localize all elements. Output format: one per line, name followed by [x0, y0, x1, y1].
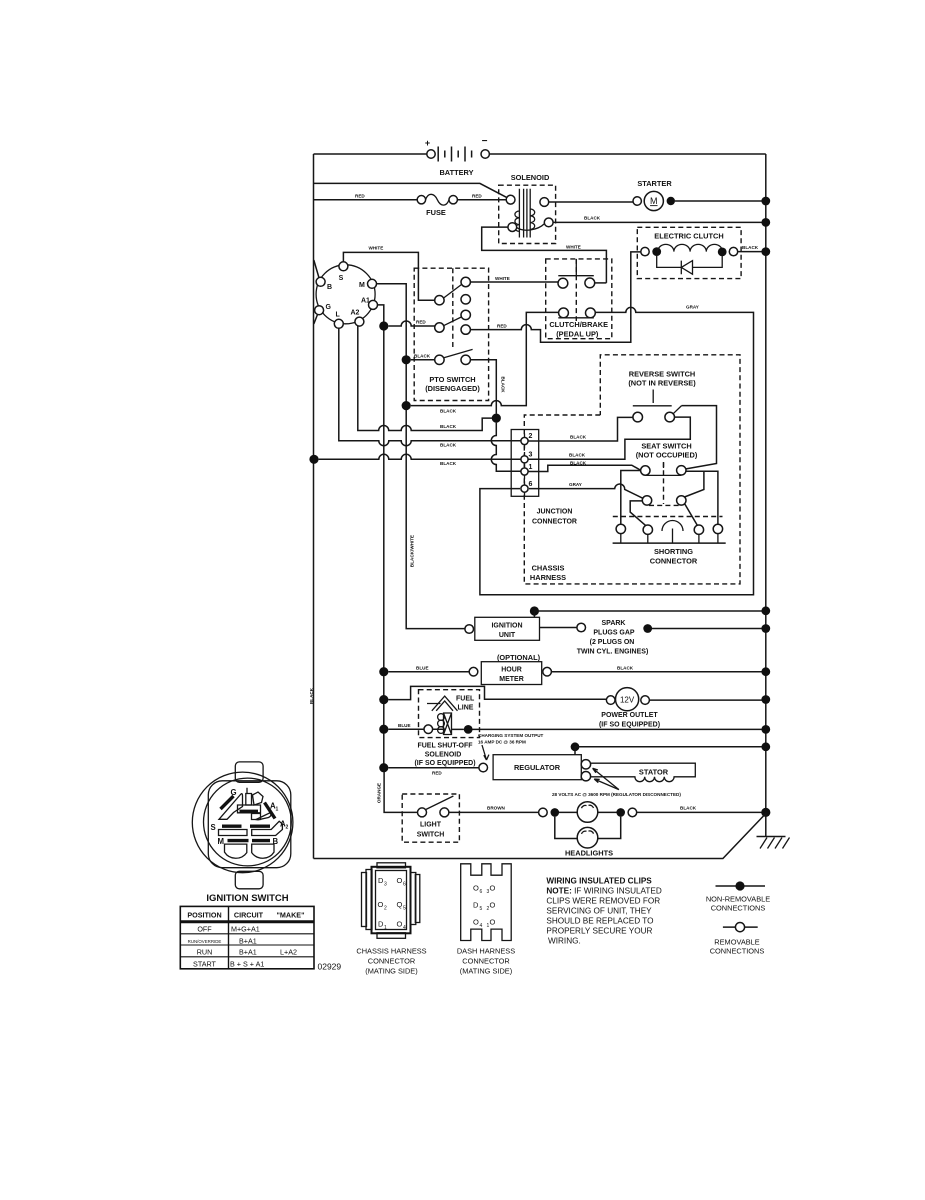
junction regulator charging: [571, 742, 580, 751]
svg-text:WHITE: WHITE: [566, 245, 581, 250]
svg-text:(PEDAL UP): (PEDAL UP): [556, 330, 599, 339]
key slots: [246, 788, 263, 805]
svg-text:(MATING SIDE): (MATING SIDE): [460, 967, 512, 976]
spark plugs gap: [540, 620, 766, 656]
svg-text:CHASSIS: CHASSIS: [532, 564, 565, 573]
svg-text:HARNESS: HARNESS: [530, 573, 566, 582]
svg-text:BLACK: BLACK: [440, 443, 457, 448]
wire left bus vertical (battery+ / B / ground run): [313, 154, 315, 859]
svg-text:3: 3: [529, 452, 533, 459]
12V power outlet: [599, 688, 660, 729]
wire starter to bus: [675, 200, 766, 202]
svg-text:ORANGE: ORANGE: [377, 783, 382, 803]
svg-text:ELECTRIC CLUTCH: ELECTRIC CLUTCH: [654, 232, 723, 241]
wire B to left bus: [314, 260, 319, 278]
svg-text:STATOR: STATOR: [639, 768, 669, 777]
svg-text:28 VOLTS AC @ 3600 RPM (REGULA: 28 VOLTS AC @ 3600 RPM (REGULATOR DISCON…: [552, 792, 681, 797]
wire M to clutch/brake via hop: [411, 312, 559, 405]
svg-text:M: M: [359, 282, 365, 289]
dash harness connector: [457, 864, 515, 976]
svg-text:PROPERLY SECURE YOUR: PROPERLY SECURE YOUR: [546, 927, 652, 936]
pto white pole: [435, 277, 471, 305]
junction connector: [511, 430, 577, 526]
removable connections legend: [710, 923, 765, 956]
svg-text:SOLENOID: SOLENOID: [425, 752, 462, 759]
svg-text:BLACK: BLACK: [570, 461, 587, 466]
fuse: [417, 194, 457, 217]
fuel line box: [419, 690, 480, 738]
light switch: [402, 794, 459, 842]
svg-text:BLACK: BLACK: [414, 353, 431, 358]
svg-text:1: 1: [529, 464, 533, 471]
fuel solenoid terminal: [424, 725, 433, 734]
svg-text:−: −: [482, 136, 488, 147]
svg-text:A1: A1: [361, 298, 370, 305]
svg-text:WHITE: WHITE: [495, 276, 510, 281]
wire RED pto to electric clutch: [470, 252, 640, 342]
terminal A1: [369, 300, 378, 309]
junction A1 12V tee: [379, 695, 388, 704]
junction hour meter bus: [761, 667, 770, 676]
wire A1 to 12V outlet: [388, 686, 606, 699]
wire pin6 GRAY to seat switch: [529, 484, 643, 498]
wire M to pto black: [411, 359, 435, 361]
svg-text:S: S: [339, 275, 344, 282]
wire pin3 to reverse switch BLACK: [528, 417, 690, 459]
wire BLUE A1 to fuel solenoid: [388, 728, 424, 730]
svg-text:12V: 12V: [620, 695, 635, 704]
svg-text:M: M: [650, 196, 658, 206]
wire BROWN light switch to headlights: [449, 811, 539, 813]
terminal M: [368, 279, 377, 288]
ignition switch table: [180, 906, 314, 968]
svg-text:WIRING INSULATED CLIPS: WIRING INSULATED CLIPS: [546, 877, 652, 886]
svg-text:CHARGING SYSTEM OUTPUT: CHARGING SYSTEM OUTPUT: [478, 733, 544, 738]
junction headlight bus: [761, 808, 770, 817]
svg-text:BLACK: BLACK: [617, 665, 634, 670]
svg-text:B + S + A1: B + S + A1: [230, 959, 264, 968]
svg-text:LIGHT: LIGHT: [420, 822, 442, 829]
junction pto-black/A2: [492, 414, 501, 423]
wire RED fuse row: [314, 199, 507, 201]
seat switch: [636, 442, 698, 506]
svg-text:FUEL SHUT-OFF: FUEL SHUT-OFF: [417, 743, 473, 750]
regulator: [479, 755, 591, 781]
svg-text:(NOT OCCUPIED): (NOT OCCUPIED): [636, 451, 698, 460]
wire seat LL elbow to shorting pin B: [630, 501, 646, 526]
svg-text:BATTERY: BATTERY: [439, 168, 473, 177]
junction fuel dot: [464, 725, 473, 734]
svg-text:NOTE: IF WIRING INSULATED: NOTE: IF WIRING INSULATED: [546, 887, 661, 896]
svg-text:1: 1: [384, 925, 387, 931]
svg-text:BLUE: BLUE: [398, 723, 411, 728]
svg-text:DASH HARNESS: DASH HARNESS: [457, 947, 515, 956]
svg-text:START: START: [193, 959, 217, 968]
pto switch box: [414, 268, 488, 400]
svg-text:BLACK: BLACK: [440, 424, 457, 429]
svg-text:B: B: [273, 837, 279, 846]
svg-text:RED: RED: [472, 194, 482, 199]
svg-text:BLACK: BLACK: [680, 806, 697, 811]
svg-text:CHASSIS HARNESS: CHASSIS HARNESS: [356, 947, 426, 956]
wire battery feed to solenoid (diagonal): [314, 183, 507, 197]
svg-text:(OPTIONAL): (OPTIONAL): [497, 653, 541, 662]
solenoid: [499, 173, 556, 244]
svg-text:RED: RED: [432, 771, 442, 776]
wire seat LR to shorting pin C: [685, 504, 698, 526]
junction 12V bus: [761, 695, 770, 704]
svg-text:JUNCTION: JUNCTION: [537, 509, 573, 516]
svg-text:4: 4: [480, 923, 483, 929]
wire RED A1 to PTO: [388, 321, 435, 326]
svg-text:RED: RED: [355, 194, 365, 199]
svg-text:6: 6: [480, 889, 483, 895]
svg-text:O: O: [397, 876, 403, 885]
junction M black tee pto: [402, 355, 411, 364]
svg-text:M: M: [218, 837, 225, 846]
svg-text:CONNECTOR: CONNECTOR: [462, 957, 510, 966]
junction clutch bus: [761, 247, 770, 256]
svg-text:2: 2: [529, 433, 533, 440]
svg-text:RUN: RUN: [197, 948, 213, 957]
junction fuel bus: [761, 725, 770, 734]
svg-text:B+A1: B+A1: [239, 948, 257, 957]
wire S WHITE to PTO common: [343, 252, 434, 300]
svg-text:PTO SWITCH: PTO SWITCH: [429, 375, 475, 384]
svg-text:RED: RED: [416, 320, 426, 325]
wire pin1 to seat switch BLACK: [528, 465, 641, 471]
wire A2 down to black row2: [358, 326, 492, 431]
wire fuel row to bus: [473, 728, 766, 730]
svg-text:G: G: [326, 304, 332, 311]
wire clutch/brake upper right to solenoid white: [595, 282, 607, 284]
clutch/brake switch box: [546, 259, 612, 339]
svg-text:2: 2: [286, 825, 289, 831]
svg-text:REGULATOR: REGULATOR: [514, 763, 561, 772]
svg-text:NON-REMOVABLE: NON-REMOVABLE: [706, 895, 770, 904]
junction A1 hour meter: [379, 667, 388, 676]
svg-text:RUN/OVERRIDE: RUN/OVERRIDE: [188, 939, 222, 944]
svg-text:RED: RED: [497, 323, 507, 328]
svg-text:BLACK: BLACK: [440, 408, 457, 413]
terminal S: [339, 262, 348, 271]
svg-text:PLUGS GAP: PLUGS GAP: [593, 630, 635, 637]
junction A1 fuel tee: [379, 725, 388, 734]
svg-text:O: O: [490, 918, 496, 927]
svg-text:"MAKE": "MAKE": [277, 910, 305, 919]
ignition switch face drawing: [192, 762, 293, 889]
terminal A2: [355, 317, 364, 326]
svg-text:POWER OUTLET: POWER OUTLET: [601, 712, 658, 719]
wire BLACK solenoid to bus: [553, 221, 766, 223]
svg-text:+: +: [425, 138, 430, 148]
svg-text:CONNECTOR: CONNECTOR: [650, 557, 698, 566]
chassis harness dashed outline: [524, 355, 740, 584]
wire battery top left to left bus: [314, 153, 427, 155]
svg-text:IGNITION SWITCH: IGNITION SWITCH: [206, 893, 288, 904]
svg-text:METER: METER: [499, 676, 524, 683]
svg-text:O: O: [490, 884, 496, 893]
svg-text:3: 3: [384, 882, 387, 888]
svg-text:(2 PLUGS ON: (2 PLUGS ON: [590, 639, 635, 646]
svg-text:SHORTING: SHORTING: [654, 547, 693, 556]
svg-text:O: O: [473, 918, 479, 927]
pin 2: [521, 433, 533, 449]
svg-text:(IF SO EQUIPPED): (IF SO EQUIPPED): [599, 722, 660, 729]
right bus vertical: [765, 154, 767, 812]
svg-text:STARTER: STARTER: [637, 179, 672, 188]
wiring insulated clips note: [546, 877, 661, 946]
pto red pole: [435, 310, 471, 334]
svg-text:CONNECTOR: CONNECTOR: [368, 957, 416, 966]
svg-text:B: B: [327, 284, 332, 291]
svg-text:S: S: [211, 823, 216, 832]
svg-text:BLACK: BLACK: [569, 453, 586, 458]
svg-text:POSITION: POSITION: [187, 910, 221, 919]
svg-text:BLUE: BLUE: [416, 665, 429, 670]
wire black row4 bus to junction pin3: [319, 454, 521, 459]
wire L down to black row3: [339, 328, 521, 445]
stator: [590, 763, 695, 782]
svg-text:GRAY: GRAY: [569, 482, 582, 487]
clutch/brake contacts: [558, 259, 595, 318]
svg-text:CIRCUIT: CIRCUIT: [234, 910, 264, 919]
wire WHITE pto to clutch/brake: [470, 281, 558, 283]
wire seat UR to shorting pin D: [686, 471, 718, 524]
junction charging bus: [761, 742, 770, 751]
thick position ticks: [221, 796, 234, 809]
svg-text:LINE: LINE: [458, 705, 474, 712]
svg-text:OFF: OFF: [197, 925, 212, 934]
svg-text:(DISENGAGED): (DISENGAGED): [425, 384, 480, 393]
svg-text:GRAY: GRAY: [686, 305, 699, 310]
junction A1 regulator tee: [379, 763, 388, 772]
svg-text:(IF SO EQUIPPED): (IF SO EQUIPPED): [414, 760, 475, 767]
wire seat LR to pinD net: [685, 471, 704, 497]
svg-text:O: O: [397, 920, 403, 929]
svg-text:BLACK: BLACK: [309, 687, 314, 704]
junction starter bus: [761, 197, 770, 206]
wire BLUE A1 to hour meter: [388, 671, 469, 673]
svg-text:BLACK: BLACK: [501, 377, 506, 394]
terminal G: [315, 306, 324, 315]
terminal B: [316, 277, 325, 286]
electric clutch: [637, 227, 741, 278]
ignition switch (schematic circle): [316, 265, 375, 324]
svg-text:G: G: [231, 788, 237, 797]
starter M: [633, 179, 675, 211]
wire M down (black/white vertical): [377, 284, 465, 629]
wire G to left bus: [314, 315, 318, 325]
svg-text:M+G+A1: M+G+A1: [231, 925, 260, 934]
svg-text:CONNECTOR: CONNECTOR: [532, 519, 577, 526]
wire solenoid M to starter: [549, 201, 633, 203]
wire pin2 to reverse switch BLACK: [528, 417, 633, 441]
svg-text:6: 6: [529, 481, 533, 488]
svg-text:SOLENOID: SOLENOID: [511, 173, 550, 182]
svg-text:(MATING SIDE): (MATING SIDE): [365, 967, 417, 976]
svg-text:BLACK: BLACK: [742, 245, 759, 250]
junction M clutch-brake tee: [402, 401, 411, 410]
svg-text:TWIN CYL. ENGINES): TWIN CYL. ENGINES): [577, 649, 649, 656]
ground symbol: [757, 812, 790, 848]
wire BLACK headlights to bus: [637, 811, 766, 813]
svg-text:UNIT: UNIT: [499, 632, 516, 639]
svg-text:BLACK: BLACK: [440, 461, 457, 466]
svg-text:SPARK: SPARK: [602, 620, 626, 627]
pin 6: [521, 481, 533, 496]
wire solenoid lower-left WHITE to clutch/brake: [482, 227, 607, 283]
wire A1 orange segment to light switch: [384, 768, 418, 813]
svg-text:L+A2: L+A2: [280, 948, 297, 957]
junction black row bus: [761, 218, 770, 227]
svg-text:SHOULD BE REPLACED TO: SHOULD BE REPLACED TO: [546, 917, 653, 926]
svg-text:Q: Q: [397, 900, 403, 909]
svg-text:SWITCH: SWITCH: [417, 832, 445, 839]
28 volts label with arrows: [552, 768, 681, 797]
svg-text:L: L: [336, 312, 341, 319]
svg-text:CONNECTIONS: CONNECTIONS: [710, 947, 765, 956]
svg-text:BLACK: BLACK: [570, 435, 587, 440]
svg-text:REMOVABLE: REMOVABLE: [714, 938, 760, 947]
ignition unit: [465, 617, 540, 640]
svg-text:HEADLIGHTS: HEADLIGHTS: [565, 849, 613, 858]
wire 12V to bus: [649, 699, 765, 701]
svg-text:O: O: [378, 900, 384, 909]
svg-text:WIRING.: WIRING.: [548, 937, 581, 946]
svg-text:16 AMP DC @ 36 RPM: 16 AMP DC @ 36 RPM: [478, 740, 526, 745]
svg-text:IGNITION: IGNITION: [491, 623, 522, 630]
wire GRAY clutch/brake around chassis to pin6: [480, 307, 754, 594]
wire bottom return: [314, 814, 766, 859]
terminal L: [334, 319, 343, 328]
svg-text:BLACK/WHITE: BLACK/WHITE: [410, 535, 415, 567]
wire hour meter to bus BLACK: [551, 671, 765, 673]
svg-text:BLACK: BLACK: [584, 216, 601, 221]
svg-text:02929: 02929: [318, 962, 342, 972]
battery: [425, 136, 490, 177]
svg-text:SERVICING OF UNIT, THEY: SERVICING OF UNIT, THEY: [546, 907, 652, 916]
svg-text:WHITE: WHITE: [369, 246, 384, 251]
wire clutch to bus BLACK: [738, 251, 766, 253]
svg-text:CONNECTIONS: CONNECTIONS: [711, 904, 766, 913]
junction spark bus: [761, 624, 770, 633]
wire kill line to bus: [534, 611, 765, 617]
chassis harness connector: [356, 863, 426, 976]
svg-text:B+A1: B+A1: [239, 936, 257, 945]
junction kill bus: [761, 606, 770, 615]
shorting connector: [613, 517, 726, 566]
svg-text:2: 2: [384, 906, 387, 912]
svg-text:CLUTCH/BRAKE: CLUTCH/BRAKE: [549, 320, 608, 329]
svg-text:CLIPS WERE REMOVED FOR: CLIPS WERE REMOVED FOR: [546, 897, 660, 906]
junction ignition unit kill line: [530, 606, 539, 615]
svg-text:A2: A2: [351, 310, 360, 317]
wire A1 down: [378, 305, 384, 768]
wire battery to right bus: [489, 153, 765, 155]
svg-text:(NOT IN REVERSE): (NOT IN REVERSE): [628, 379, 696, 388]
svg-text:O: O: [490, 901, 496, 910]
svg-text:BROWN: BROWN: [487, 806, 506, 811]
wire pto black to junction pin1 via vertical: [470, 360, 521, 472]
wire seat UL to shorting pin A: [621, 471, 641, 525]
non-removable connections legend: [706, 881, 770, 912]
svg-text:O: O: [473, 884, 479, 893]
junction left bus row4: [309, 455, 318, 464]
svg-text:1: 1: [276, 807, 279, 813]
hour meter: [469, 653, 551, 685]
wire reverse arm to seat switch: [682, 406, 717, 469]
svg-text:REVERSE SWITCH: REVERSE SWITCH: [629, 370, 696, 379]
junction A1 red tee: [379, 321, 388, 330]
svg-text:5: 5: [403, 906, 406, 912]
svg-text:FUSE: FUSE: [426, 208, 446, 217]
svg-text:4: 4: [403, 925, 406, 931]
pin 3: [521, 452, 533, 468]
svg-text:5: 5: [480, 906, 483, 912]
svg-text:6: 6: [403, 882, 406, 888]
headlights: [539, 802, 637, 858]
svg-text:SEAT SWITCH: SEAT SWITCH: [641, 442, 691, 451]
svg-text:HOUR: HOUR: [501, 667, 522, 674]
svg-text:FUEL: FUEL: [456, 696, 475, 703]
pto black pole: [435, 349, 473, 364]
pin 1: [521, 464, 533, 479]
reverse switch: [628, 370, 696, 422]
svg-text:D: D: [473, 901, 479, 910]
wire RED A1 to regulator: [388, 767, 479, 769]
